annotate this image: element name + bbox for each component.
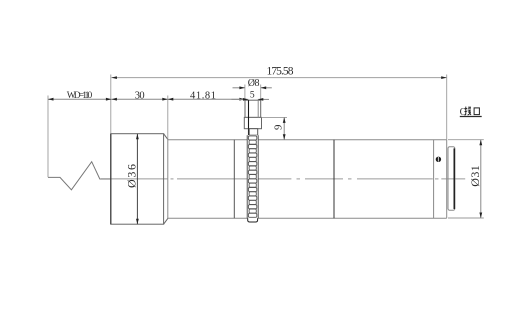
C-mount label "C接口" underlined bbox=[460, 106, 482, 117]
svg-text:9: 9 bbox=[273, 124, 285, 130]
extension lines bbox=[48, 75, 484, 219]
thumbscrew neck bbox=[249, 129, 258, 136]
dimension Ø31 (vertical) bbox=[468, 140, 482, 218]
dimension 41.81 bbox=[168, 91, 245, 102]
dimension 9 (vertical) bbox=[273, 117, 286, 139]
dimension 175.58 bbox=[111, 65, 446, 79]
svg-text:175.58: 175.58 bbox=[267, 65, 294, 77]
set screw on rear ring bbox=[436, 157, 441, 162]
svg-text:WD=110: WD=110 bbox=[67, 91, 93, 101]
underline bbox=[460, 116, 482, 118]
svg-text:30: 30 bbox=[135, 91, 145, 102]
barrel division 3 bbox=[433, 140, 435, 219]
dimension Ø8 bbox=[233, 78, 272, 89]
barrel division 2 bbox=[333, 140, 335, 219]
dimension Ø36 (vertical) bbox=[124, 134, 139, 225]
svg-text:Ø36: Ø36 bbox=[124, 164, 138, 188]
svg-text:5: 5 bbox=[250, 91, 255, 101]
svg-text:41.81: 41.81 bbox=[190, 91, 216, 102]
object plane zigzag bbox=[48, 162, 111, 190]
front cylinder Ø36 body bbox=[111, 134, 168, 225]
dimension 5 bbox=[232, 91, 270, 101]
svg-text:Ø8: Ø8 bbox=[248, 78, 260, 89]
knurled locking rod bbox=[247, 135, 258, 222]
C-mount thread ring bbox=[448, 147, 455, 210]
chamfer top bbox=[164, 134, 168, 140]
chamfer bottom bbox=[164, 218, 168, 224]
svg-text:Ø31: Ø31 bbox=[468, 165, 482, 187]
glyph 口 bbox=[474, 108, 479, 115]
glyph 接 bbox=[464, 106, 471, 115]
thumbscrew top shaft Ø8 bbox=[244, 100, 261, 135]
dimension WD=110 bbox=[48, 91, 111, 101]
main barrel outline bbox=[168, 140, 447, 219]
barrel division 1 bbox=[233, 140, 235, 219]
rod bottom cap bbox=[248, 218, 258, 222]
dimension 30 bbox=[111, 91, 167, 102]
centerline (dash-dot optical axis) bbox=[101, 178, 465, 180]
